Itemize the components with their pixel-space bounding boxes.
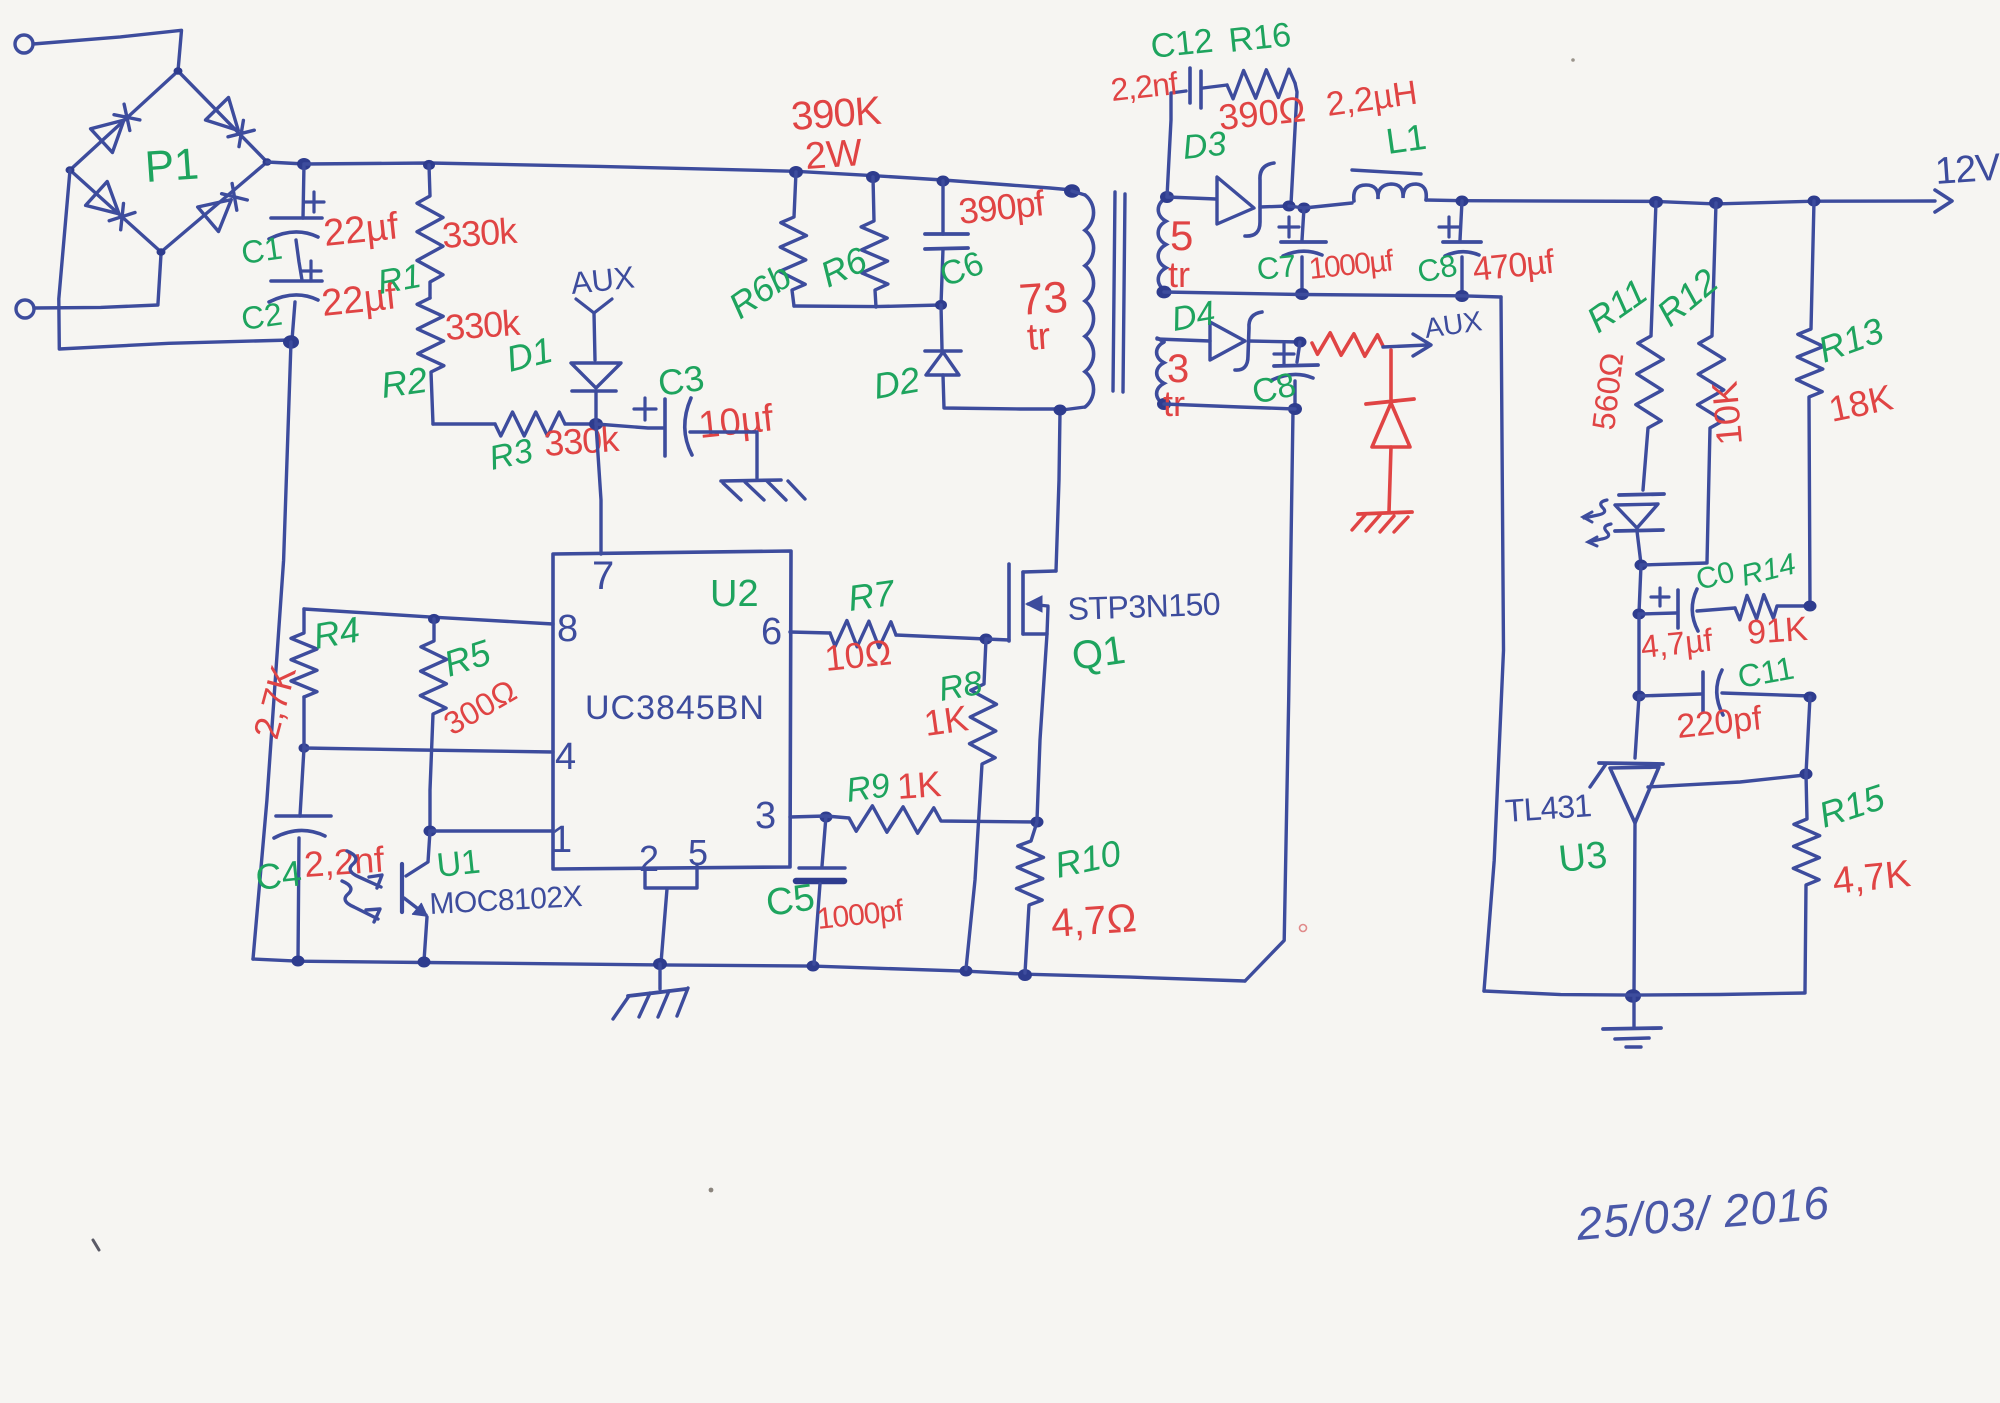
capacitor C2 — [271, 279, 322, 283]
svg-text:R2: R2 — [378, 359, 429, 406]
svg-text:1: 1 — [551, 819, 572, 861]
junction 5tr bottom — [1157, 286, 1172, 299]
LED (optocoupler emitter) — [1619, 494, 1664, 495]
svg-text:2,2nf: 2,2nf — [1109, 65, 1180, 108]
capacitor C6 bottom lead — [941, 249, 943, 305]
svg-text:R16: R16 — [1227, 16, 1293, 60]
svg-text:2,2nf: 2,2nf — [303, 838, 387, 885]
wire node to U2 pin7 — [596, 424, 601, 554]
resistor R5 — [420, 619, 446, 831]
wire D4 to node — [1249, 341, 1300, 342]
capacitor C5 lead — [822, 816, 826, 866]
junction R1 top — [423, 160, 435, 170]
wire terminal-top to bridge — [33, 30, 182, 71]
resistor R15 — [1793, 774, 1819, 992]
wire C6 to D2 — [941, 305, 942, 349]
svg-text:C5: C5 — [763, 877, 817, 925]
zener diode (red) — [1366, 399, 1414, 404]
ground (TL431) — [1632, 996, 1635, 1027]
wire R4bot to C4 — [300, 748, 304, 816]
wire LED to node — [1637, 531, 1641, 564]
svg-text:4: 4 — [555, 736, 576, 778]
junction C0/R14 — [1633, 609, 1646, 620]
svg-text:Q1: Q1 — [1069, 628, 1128, 679]
wire R6b/R6 bottoms — [794, 305, 941, 307]
svg-text:91K: 91K — [1746, 610, 1809, 652]
svg-text:STP3N150: STP3N150 — [1067, 586, 1221, 627]
wire R3 to node — [565, 422, 596, 425]
junction R10 rail — [1018, 969, 1032, 981]
wire left vertical to bottom rail — [253, 342, 291, 959]
wire C3 to ground — [690, 432, 757, 478]
svg-text:4,7µf: 4,7µf — [1639, 622, 1714, 665]
bridge P1 edge top-right — [178, 71, 267, 162]
bridge diode D-topright — [206, 98, 239, 131]
wire AUX to D1 — [594, 313, 595, 360]
wire R4bot to pin4 — [304, 697, 553, 752]
aux arrowhead — [1413, 334, 1431, 356]
resistor R16 — [1227, 69, 1295, 99]
diode D3 — [1217, 177, 1254, 224]
svg-text:4,7K: 4,7K — [1831, 853, 1913, 903]
svg-text:4,7Ω: 4,7Ω — [1050, 896, 1138, 946]
diode D1 — [571, 363, 621, 388]
resistor R3 — [495, 412, 565, 436]
capacitor C7 lead — [1302, 208, 1304, 240]
wire to C0 — [1639, 613, 1676, 614]
svg-text:6: 6 — [761, 611, 782, 653]
inductor L1 — [1352, 170, 1421, 174]
resistor R1 — [417, 165, 443, 298]
wire pin2/5 stubs — [645, 866, 697, 888]
speck (red ring) — [1300, 925, 1307, 932]
wire pin8 to R5/R4 tops — [304, 609, 553, 624]
resistor R7 — [830, 621, 896, 648]
transformer secondary winding 5tr — [1158, 198, 1166, 291]
U1 light arrows — [347, 851, 381, 887]
junction LED/R12 — [1635, 560, 1648, 571]
svg-text:3: 3 — [755, 795, 776, 837]
capacitor C7 — [1281, 240, 1326, 244]
junction pin1/R5/U1 — [424, 826, 437, 837]
resistor R6b — [780, 172, 807, 306]
resistor R2 — [417, 298, 444, 424]
wire right gnd rail — [1484, 991, 1805, 995]
Q1 drain vertical — [1056, 412, 1060, 571]
Q1 source vertical — [1037, 607, 1048, 820]
transistor Q1 channel — [1021, 572, 1025, 634]
junction D4 out — [1294, 337, 1307, 348]
svg-text:U1: U1 — [435, 843, 482, 885]
svg-text:330k: 330k — [441, 210, 520, 256]
resistor R9 — [826, 806, 1037, 833]
capacitor C8 (3tr) — [1274, 365, 1318, 366]
junction R6b top — [789, 166, 803, 178]
bridge node bottom — [157, 248, 166, 256]
junction R10 top — [1031, 817, 1044, 828]
svg-text:C3: C3 — [655, 357, 706, 404]
wire C0 to R14 — [1697, 608, 1735, 611]
resistor R13 — [1797, 201, 1824, 605]
capacitor C3 — [663, 399, 667, 456]
capacitor C8b bottom lead — [1293, 381, 1296, 408]
wire R16 down to D3 cathode — [1291, 83, 1297, 204]
wire 3tr bottom rail — [1164, 404, 1295, 409]
resistor R4 — [291, 609, 317, 697]
bridge P1 edge bottom-right — [161, 162, 267, 252]
capacitor C0 — [1676, 590, 1680, 628]
transformer primary winding 73tr — [1085, 195, 1094, 407]
svg-text:R7: R7 — [845, 572, 898, 619]
junction R8 rail — [960, 966, 973, 977]
svg-text:tr: tr — [1168, 254, 1190, 295]
aux arrow chevron — [576, 299, 612, 313]
bridge node right — [263, 158, 272, 166]
junction C7 bottom — [1295, 288, 1309, 300]
wire 5tr top to C12 — [1167, 91, 1186, 197]
junction C6/D2 — [935, 300, 947, 310]
junction R13 top — [1808, 196, 1821, 207]
wire R12 to LED node — [1641, 563, 1707, 565]
svg-text:5: 5 — [1170, 212, 1193, 259]
junction R5 top — [428, 614, 440, 624]
junction gate/R8 — [980, 634, 993, 645]
capacitor C7 bottom lead — [1300, 257, 1303, 293]
svg-text:D2: D2 — [870, 359, 922, 407]
junction R6 top — [866, 171, 880, 183]
transistor Q1 gate — [1007, 564, 1011, 641]
svg-text:2: 2 — [639, 838, 659, 879]
bridge node left — [66, 166, 75, 174]
junction C2 bottom — [283, 335, 299, 349]
TL431 U3 — [1599, 763, 1663, 764]
wire D1 to node — [594, 391, 597, 424]
resistor R10 — [1017, 822, 1044, 973]
wire gate junction — [986, 639, 1009, 640]
capacitor C6 — [925, 232, 968, 236]
junction C6 top — [937, 176, 950, 187]
primary bottom hook — [1062, 407, 1085, 410]
capacitor C8b lead — [1297, 342, 1300, 362]
junction pin3 — [820, 812, 833, 823]
wire C11 node to TL431 — [1635, 696, 1639, 758]
ground (C3) — [721, 480, 781, 481]
svg-text:10K: 10K — [1704, 379, 1750, 446]
bridge diode D-topleft — [91, 120, 124, 152]
svg-text:TL431: TL431 — [1504, 787, 1592, 829]
TL431 ref wire — [1648, 775, 1805, 787]
svg-text:R4: R4 — [310, 609, 362, 657]
wire D2 to primary bottom — [943, 375, 1055, 409]
wire secondary gnd rail — [1164, 292, 1501, 297]
svg-text:390K: 390K — [790, 89, 884, 139]
input terminal (top) — [15, 35, 33, 53]
junction C8b bottom — [1288, 403, 1302, 415]
svg-text:D3: D3 — [1181, 125, 1228, 167]
capacitor C8 lead — [1460, 201, 1462, 240]
junction R4 bottom — [299, 743, 310, 752]
junction C7 top — [1298, 203, 1311, 214]
svg-text:10Ω: 10Ω — [823, 631, 894, 679]
junction C8 top — [1456, 196, 1469, 207]
wire bottom rail — [253, 959, 1245, 981]
wire secondary gnd down — [1484, 297, 1504, 991]
TL431 anode down — [1634, 823, 1635, 994]
bridge P1 edge top-left — [70, 71, 178, 170]
junction U1 rail — [418, 957, 431, 968]
wire pin1 — [430, 829, 553, 832]
resistor R6 — [861, 177, 888, 307]
transformer secondary winding 3tr — [1157, 342, 1164, 404]
resistor R11 — [1636, 202, 1663, 490]
speck (small) — [709, 1188, 714, 1193]
svg-text:L1: L1 — [1383, 116, 1428, 162]
junction R15 top — [1800, 769, 1813, 780]
bridge node top — [174, 67, 183, 75]
diode D4 — [1210, 322, 1245, 360]
wire 3tr to D4 — [1157, 339, 1210, 341]
wire top rail — [305, 163, 943, 180]
pen mark speck — [93, 1240, 99, 1250]
wire D3 node to L1 — [1289, 203, 1352, 208]
svg-text:12V: 12V — [1934, 146, 2000, 193]
wire C1 top — [303, 164, 304, 218]
svg-text:22µf: 22µf — [322, 205, 401, 255]
LED light arrows — [1584, 500, 1607, 518]
input terminal (bottom) — [16, 300, 34, 318]
junction primary top — [1064, 184, 1080, 198]
wire L1 to 12V — [1426, 200, 1935, 204]
wire 5tr to D3 — [1167, 197, 1216, 199]
junction D1/R3/C3 — [589, 418, 603, 430]
junction TL431 gnd — [1625, 989, 1641, 1003]
optocoupler U1 base bar — [400, 864, 404, 912]
wire R2 to R3 — [433, 422, 495, 425]
junction R11 top — [1649, 196, 1663, 208]
wire C11 to R13 col — [1722, 693, 1810, 696]
svg-text:1K: 1K — [921, 697, 970, 744]
svg-text:C1: C1 — [239, 230, 285, 271]
capacitor C12 — [1188, 68, 1192, 103]
wire pin6 — [790, 632, 830, 633]
bridge P1 edge bottom-left — [70, 170, 161, 252]
primary top hook — [1072, 191, 1085, 195]
transistor Q1 drain stub — [1023, 571, 1056, 572]
capacitor C5 — [799, 866, 845, 869]
capacitor C1 — [271, 216, 322, 220]
junction 3tr bottom — [1157, 398, 1171, 410]
wire bridge+ to rail — [267, 162, 305, 164]
wire D3 to node — [1260, 206, 1288, 207]
svg-text:C12: C12 — [1149, 22, 1215, 66]
wire aux arrow — [1383, 345, 1427, 347]
capacitor C8 bottom lead — [1460, 257, 1463, 295]
wire R7 to gate — [896, 635, 986, 639]
wire terminal-bottom to bridge — [34, 254, 161, 308]
svg-text:tr: tr — [1026, 315, 1052, 359]
resistor R-aux (red) — [1312, 333, 1383, 356]
wire rail up right side — [1245, 411, 1293, 981]
bridge diode D-bottomleft — [86, 182, 119, 214]
transistor Q1 source stub — [1023, 632, 1047, 635]
resistor R12 — [1698, 203, 1725, 562]
ground (main) — [658, 964, 661, 989]
svg-text:P1: P1 — [143, 139, 200, 192]
svg-text:C2: C2 — [239, 296, 285, 337]
resistor R8 — [966, 639, 997, 969]
wire R13col to R15 — [1806, 697, 1810, 774]
wire C2 bottom — [292, 302, 295, 340]
svg-text:D4: D4 — [1169, 294, 1218, 339]
svg-text:8: 8 — [557, 608, 578, 650]
capacitor C8 (470µf) — [1443, 240, 1481, 244]
resistor R14 — [1735, 595, 1810, 620]
svg-text:1K: 1K — [896, 763, 943, 807]
svg-text:R1: R1 — [375, 257, 424, 302]
transistor Q1 body arrow — [1028, 604, 1048, 606]
wire C12 to R16 — [1203, 85, 1227, 88]
junction gnd rail — [653, 958, 667, 970]
svg-text:AUX: AUX — [569, 259, 636, 301]
junction C5 rail — [807, 961, 820, 972]
junction 5tr top — [1160, 191, 1174, 203]
junction R14/R13 — [1804, 601, 1817, 612]
zener diode (red) lead — [1389, 350, 1393, 399]
svg-text:UC3845BN: UC3845BN — [585, 689, 765, 727]
junction rail/C1 — [297, 158, 311, 170]
diode D2 — [925, 349, 961, 353]
svg-text:7: 7 — [592, 554, 614, 598]
bridge diode D-bottomright — [198, 200, 232, 232]
svg-text:C7: C7 — [1255, 248, 1298, 287]
wire node to C3 — [596, 424, 663, 428]
svg-text:U2: U2 — [710, 573, 759, 615]
svg-text:R9: R9 — [844, 766, 892, 810]
capacitor C11 — [1701, 672, 1705, 712]
capacitor C6 top lead — [941, 181, 944, 234]
op-amp U2 box UC3845BN — [553, 551, 791, 869]
svg-text:C4: C4 — [254, 852, 304, 898]
capacitor C4 — [276, 814, 331, 818]
ground (red, aux) — [1358, 512, 1412, 514]
svg-text:10µf: 10µf — [697, 397, 776, 447]
junction C11 left — [1633, 691, 1646, 702]
wire LED node down — [1639, 565, 1641, 613]
transformer core — [1113, 192, 1115, 391]
wire C4 to rail — [298, 838, 299, 960]
svg-text:U3: U3 — [1557, 834, 1610, 881]
junction primary bottom — [1054, 405, 1067, 416]
wire rail to primary — [943, 180, 1072, 190]
wire C0 node down — [1637, 614, 1640, 695]
junction D3 out — [1283, 201, 1296, 212]
U1 collector — [406, 831, 430, 876]
12V arrowhead — [1935, 190, 1952, 212]
junction C11/R13 — [1804, 692, 1817, 703]
svg-text:2W: 2W — [804, 132, 864, 178]
3tr top hook — [1157, 338, 1164, 342]
U1 emitter with arrow — [404, 898, 426, 915]
wire to C11 — [1639, 694, 1701, 696]
speck (dot) — [1571, 58, 1575, 62]
wire C1-C2 — [296, 240, 302, 280]
wire pin3 — [790, 816, 826, 817]
wire bridge- down-left — [59, 170, 291, 349]
junction R12 top — [1709, 197, 1723, 209]
junction C4 rail — [292, 956, 305, 967]
wire pins to gnd rail — [661, 889, 667, 963]
junction C8 bottom — [1455, 290, 1469, 302]
